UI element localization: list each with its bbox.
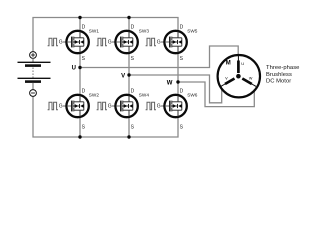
svg-text:u: u [241,62,244,67]
svg-text:D: D [180,24,184,30]
svg-text:D: D [131,24,135,30]
svg-text:G: G [108,104,112,110]
svg-text:G: G [59,40,63,46]
svg-text:SW1: SW1 [89,29,100,34]
svg-text:Brushless: Brushless [266,72,292,78]
svg-text:G: G [157,40,161,46]
svg-text:Three-phase: Three-phase [266,65,299,71]
svg-text:SW2: SW2 [89,93,100,98]
svg-text:D: D [82,24,86,30]
svg-text:U: U [72,66,76,72]
svg-text:W: W [167,81,173,87]
svg-text:D: D [180,88,184,94]
svg-text:SW6: SW6 [187,93,198,98]
svg-text:D: D [82,88,86,94]
svg-text:V: V [121,74,125,80]
svg-text:G: G [108,40,112,46]
svg-text:w: w [249,76,253,81]
svg-text:G: G [59,104,63,110]
svg-text:DC Motor: DC Motor [266,79,291,85]
svg-text:D: D [131,88,135,94]
svg-text:SW3: SW3 [139,29,150,34]
svg-text:G: G [157,104,161,110]
svg-text:M: M [226,61,231,67]
svg-text:SW5: SW5 [187,29,198,34]
svg-text:SW4: SW4 [139,93,150,98]
